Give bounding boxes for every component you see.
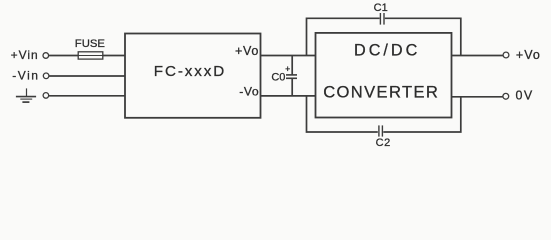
fuse F1 xyxy=(78,52,103,59)
svg-text:DC/DC: DC/DC xyxy=(354,42,420,60)
svg-text:+Vo: +Vo xyxy=(235,44,259,58)
terminal 0V out xyxy=(503,93,509,99)
box DC/DC converter xyxy=(316,33,452,118)
wire -Vin to FC box xyxy=(49,75,125,77)
svg-text:C2: C2 xyxy=(376,137,391,149)
wire FC +Vo to converter xyxy=(261,55,316,57)
terminal GND xyxy=(43,93,49,99)
terminal -Vin xyxy=(43,73,49,79)
svg-text:CONVERTER: CONVERTER xyxy=(323,82,439,101)
svg-text:+Vo: +Vo xyxy=(516,48,541,62)
wire C2 bracket right xyxy=(383,97,461,132)
capacitor C0 xyxy=(286,56,297,96)
wire 0V out xyxy=(452,96,504,98)
terminal +Vin xyxy=(43,53,49,59)
svg-text:-Vo: -Vo xyxy=(239,84,259,98)
wire C2 bracket left xyxy=(307,96,378,132)
wire GND to FC box xyxy=(49,95,125,97)
svg-text:C0: C0 xyxy=(271,71,285,83)
svg-text:FC-xxxD: FC-xxxD xyxy=(154,63,226,80)
wire FC -Vo to converter xyxy=(261,95,316,97)
wire C1 bracket right xyxy=(385,18,461,55)
svg-text:-Vin: -Vin xyxy=(12,69,39,83)
wire +Vo out xyxy=(452,55,504,57)
wire fuse to FC box xyxy=(103,55,125,57)
svg-text:C1: C1 xyxy=(374,2,388,14)
ground symbol xyxy=(16,88,36,102)
wire +Vin to fuse xyxy=(49,55,78,57)
box FC-xxxD xyxy=(125,34,261,118)
svg-text:+: + xyxy=(285,64,290,74)
svg-text:0V: 0V xyxy=(516,89,534,103)
terminal +Vo out xyxy=(503,52,509,58)
wire C1 bracket left xyxy=(307,18,380,55)
svg-text:FUSE: FUSE xyxy=(75,38,106,50)
capacitor C2 xyxy=(379,125,383,136)
svg-text:+Vin: +Vin xyxy=(11,48,39,62)
capacitor C1 xyxy=(380,13,384,25)
